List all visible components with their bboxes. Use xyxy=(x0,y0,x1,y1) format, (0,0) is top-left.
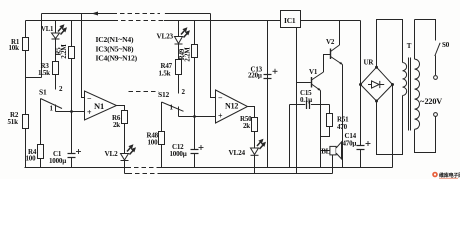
resistor R49 xyxy=(192,45,198,58)
label R49 rotated xyxy=(179,47,192,62)
wire V1 emitter column xyxy=(320,91,322,168)
node junction N1 plus input xyxy=(70,110,73,113)
svg-text:V2: V2 xyxy=(326,38,335,46)
svg-text:+: + xyxy=(218,112,223,121)
terminal mains upper xyxy=(434,76,438,80)
wire aux stub xyxy=(290,104,297,106)
LED VL1 xyxy=(52,33,60,39)
resistor R51 xyxy=(327,114,333,127)
resistor R3 xyxy=(53,62,59,75)
wire top output bus xyxy=(42,13,113,15)
svg-text:100: 100 xyxy=(26,155,37,163)
wire UR bottom to secondary bottom xyxy=(377,96,403,155)
speaker BL xyxy=(330,142,342,159)
wire primary top stem xyxy=(414,20,416,60)
wire DC plus column upper xyxy=(360,21,362,146)
wire BL stub xyxy=(321,150,330,152)
svg-text:470: 470 xyxy=(337,123,348,131)
wire VL23 R47 column xyxy=(178,21,180,94)
svg-text:220µ: 220µ xyxy=(248,72,262,80)
wire BL to return rail xyxy=(332,155,334,174)
svg-text:470µ: 470µ xyxy=(343,140,357,148)
labels right section xyxy=(248,38,450,156)
wire primary bottom stem to lower terminal xyxy=(415,117,436,153)
switch S0 blade xyxy=(435,43,440,56)
wire S12 pole to R48 column xyxy=(161,102,163,168)
wire S0 branch xyxy=(415,20,436,41)
svg-text:100: 100 xyxy=(148,139,159,147)
wire C13 column xyxy=(267,21,269,168)
svg-text:VL23: VL23 xyxy=(157,33,174,41)
wire N12 plus input xyxy=(179,116,216,118)
svg-text:N12: N12 xyxy=(225,102,238,111)
wire V2 collector xyxy=(339,21,341,46)
node UR bottom vertex xyxy=(375,100,378,103)
svg-text:2.2M: 2.2M xyxy=(61,44,68,59)
svg-text:UR: UR xyxy=(364,59,375,67)
wire V+ rail xyxy=(26,20,114,22)
svg-text:S0: S0 xyxy=(442,41,450,49)
capacitor C14 xyxy=(357,146,365,150)
svg-text:+: + xyxy=(87,108,92,117)
wire V1 base xyxy=(297,82,311,84)
wire VL2 to return rail xyxy=(124,161,126,174)
resistor R1 xyxy=(23,38,29,51)
svg-text:−: − xyxy=(218,94,223,103)
node UR top vertex xyxy=(375,66,378,69)
svg-text:IC4(N9~N12): IC4(N9~N12) xyxy=(96,54,138,63)
wire R49 C12 column xyxy=(194,21,196,150)
labels IC group xyxy=(96,35,138,63)
wire divider tap branch xyxy=(26,77,42,79)
switch S1 blade xyxy=(41,99,63,109)
LED VL2 xyxy=(121,154,129,161)
svg-text:1000µ: 1000µ xyxy=(49,157,66,165)
wire C12 to ground xyxy=(194,154,196,168)
capacitor C13 xyxy=(264,75,272,79)
svg-text:−: − xyxy=(87,94,92,103)
wire UR right vertex column xyxy=(392,85,394,168)
svg-text:S1: S1 xyxy=(39,88,47,97)
transformer primary winding xyxy=(415,59,420,129)
svg-text:2k: 2k xyxy=(113,121,120,129)
node junction N12 plus input xyxy=(193,115,196,118)
wire DC plus column lower xyxy=(360,150,362,168)
wire N12 output to R50 xyxy=(248,107,255,149)
wire N1 output to R6 xyxy=(117,106,125,154)
wire S12 contact1 stub xyxy=(178,107,180,117)
wire IC1 output column xyxy=(296,28,298,174)
wire R51 top lead xyxy=(329,105,331,114)
svg-text:51k: 51k xyxy=(8,118,19,126)
svg-text:IC1: IC1 xyxy=(284,16,296,25)
wire N1 plus input xyxy=(56,111,85,113)
svg-text:VL24: VL24 xyxy=(229,149,246,157)
transformer core xyxy=(409,58,411,131)
wire LED return rail xyxy=(125,173,128,175)
resistor R2 xyxy=(23,115,29,129)
capacitor C12 xyxy=(191,150,199,154)
wire R5 C1 column xyxy=(71,21,73,154)
svg-text:~ 220V: ~ 220V xyxy=(420,97,442,106)
node UR right vertex xyxy=(391,83,394,86)
svg-text:2k: 2k xyxy=(243,122,250,130)
arrow on output bus xyxy=(92,12,99,16)
wire channel1 box edge xyxy=(41,14,43,78)
svg-text:10k: 10k xyxy=(9,44,20,52)
bridge rectifier UR xyxy=(361,67,393,101)
transistor V2 xyxy=(330,49,332,60)
label contact numbers S1 xyxy=(50,85,64,113)
wire N1 minus input column xyxy=(82,14,85,98)
svg-text:S12: S12 xyxy=(158,90,170,99)
wire S1 contact1 stub xyxy=(55,105,57,112)
wire R51 bottom jog xyxy=(321,127,330,137)
wire VL1 R3 column xyxy=(55,21,57,90)
capacitor C1 xyxy=(68,154,76,158)
label R5 rotated xyxy=(56,44,69,59)
wire N12 minus input column xyxy=(211,14,216,98)
svg-text:N1: N1 xyxy=(94,101,104,111)
node UR left vertex xyxy=(359,83,362,86)
transistor V1 xyxy=(311,77,313,88)
svg-text:1.5k: 1.5k xyxy=(38,69,50,77)
capacitor C15 xyxy=(307,101,310,110)
svg-text:V1: V1 xyxy=(309,68,318,76)
svg-text:IC3(N5~N8): IC3(N5~N8) xyxy=(96,45,134,54)
svg-text:0.1µ: 0.1µ xyxy=(300,96,312,104)
terminal mains lower xyxy=(434,113,438,117)
resistor R47 xyxy=(176,60,182,75)
wire V2 base link xyxy=(324,55,331,73)
resistor R50 xyxy=(252,118,258,132)
wire VL24 to return rail xyxy=(254,155,256,174)
svg-text:1.5k: 1.5k xyxy=(159,70,171,78)
wire ground rail xyxy=(25,167,127,169)
svg-text:VL2: VL2 xyxy=(105,150,119,158)
wire S1 pole to R4 column xyxy=(40,99,42,168)
resistor R6 xyxy=(122,111,128,124)
wire C1 to ground xyxy=(71,158,73,168)
LED VL24 xyxy=(251,148,259,155)
labels channel 1 xyxy=(8,26,121,165)
wire C15 link left xyxy=(297,104,306,106)
resistor R4 xyxy=(38,145,44,159)
resistor R5 xyxy=(69,47,75,59)
wire V2 emitter column xyxy=(342,65,344,168)
labels channel 12 xyxy=(147,33,253,159)
IC1 box xyxy=(281,11,301,28)
svg-text:2.2M: 2.2M xyxy=(185,47,192,62)
svg-text:1000µ: 1000µ xyxy=(170,150,187,158)
wire aux column to ground xyxy=(289,105,291,168)
transformer secondary winding xyxy=(403,63,407,96)
LED VL23 xyxy=(175,37,183,45)
op-amp N12 xyxy=(216,90,248,123)
label contact numbers S12 xyxy=(170,88,186,112)
svg-text:T: T xyxy=(407,42,412,50)
svg-text:IC2(N1~N4): IC2(N1~N4) xyxy=(96,35,134,44)
logo watermark xyxy=(432,172,460,179)
svg-text:BL: BL xyxy=(321,148,330,156)
wire R1 R2 divider column xyxy=(25,21,27,168)
wire S0 to upper terminal xyxy=(435,56,437,76)
svg-text:VL1: VL1 xyxy=(41,26,54,33)
wire C15 link right xyxy=(311,104,330,106)
wire repetition dashed link xyxy=(129,91,159,93)
switch S12 blade xyxy=(162,102,184,111)
wire UR top to secondary top xyxy=(377,20,403,68)
resistor R48 xyxy=(159,132,165,145)
op-amp N1 xyxy=(85,91,117,120)
